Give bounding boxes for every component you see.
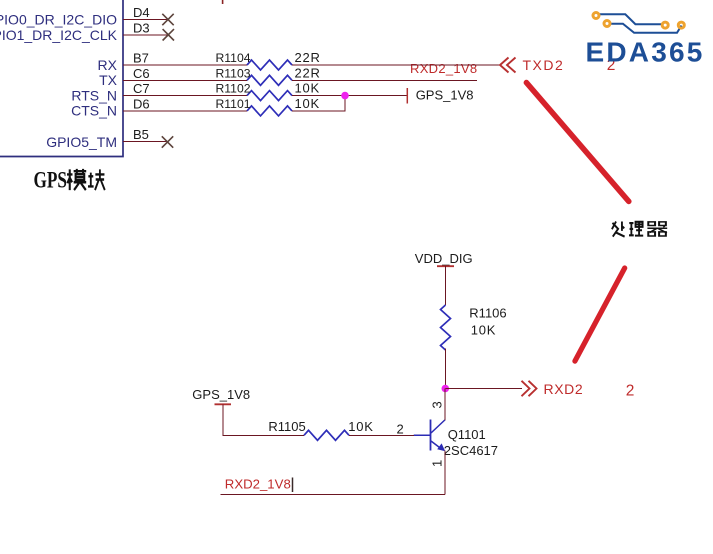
junction dot at R1101/R1102 net xyxy=(341,92,349,100)
svg-text:B5: B5 xyxy=(133,127,149,142)
wire RX row to R1104 xyxy=(123,64,247,66)
svg-text:D4: D4 xyxy=(133,5,150,20)
wire Q1101 emitter down xyxy=(444,451,446,495)
EDA365 logo: trace 1 xyxy=(600,14,662,24)
resistor R1102 xyxy=(247,91,292,101)
svg-text:RXD2_1V8: RXD2_1V8 xyxy=(225,477,291,492)
wire GPS_1V8 down and right to R1105 xyxy=(223,404,304,435)
wire pin D3 stub xyxy=(123,34,168,36)
svg-text:10K: 10K xyxy=(348,419,374,434)
svg-text:GPS_1V8: GPS_1V8 xyxy=(192,387,250,402)
svg-text:3: 3 xyxy=(430,401,445,408)
svg-text:CTS_N: CTS_N xyxy=(71,103,117,119)
EDA365 logo: pad A xyxy=(593,13,599,19)
svg-text:R1103: R1103 xyxy=(216,66,251,80)
wire R1105 to Q1101 base xyxy=(349,434,414,436)
svg-text:R1106: R1106 xyxy=(469,306,506,321)
svg-text:RXD2: RXD2 xyxy=(544,381,584,397)
svg-text:R1102: R1102 xyxy=(216,82,251,96)
svg-text:GPIO5_TM: GPIO5_TM xyxy=(46,134,117,150)
svg-text:22R: 22R xyxy=(295,65,321,80)
svg-text:1: 1 xyxy=(430,460,445,467)
svg-text:GPIO1_DR_I2C_CLK: GPIO1_DR_I2C_CLK xyxy=(0,27,118,43)
resistor R1101 xyxy=(247,106,292,116)
svg-text:22R: 22R xyxy=(295,50,321,65)
svg-text:2: 2 xyxy=(626,383,635,400)
GPS module label: 模 xyxy=(67,169,86,190)
wire TX row dangling xyxy=(292,79,477,81)
svg-text:GPS: GPS xyxy=(34,168,68,193)
svg-text:TX: TX xyxy=(99,72,118,88)
svg-text:R1105: R1105 xyxy=(268,419,305,434)
transistor Q1101 emitter arrow xyxy=(437,443,445,451)
svg-text:RX: RX xyxy=(98,57,118,73)
red annotation line to TXD2 xyxy=(526,83,628,202)
svg-text:10K: 10K xyxy=(471,322,497,337)
EDA365 logo: pad D xyxy=(678,22,684,28)
svg-text:10K: 10K xyxy=(295,96,321,111)
resistor R1103 xyxy=(247,75,292,85)
off-page connector TXD2 (chevrons) xyxy=(500,58,516,73)
annotation label: 处 xyxy=(612,222,625,237)
wire RXD2_1V8 bottom run xyxy=(221,493,446,495)
wire R1106 to collector node xyxy=(445,349,447,390)
no-connect X on D3 xyxy=(163,29,174,40)
wire CTS_N row joining RTS_N net xyxy=(292,96,345,111)
svg-text:RXD2_1V8: RXD2_1V8 xyxy=(410,61,477,76)
svg-text:EDA365: EDA365 xyxy=(586,37,705,68)
GPS module U1101 block border xyxy=(0,0,123,157)
svg-text:C7: C7 xyxy=(133,81,150,96)
svg-text:GPIO0_DR_I2C_DIO: GPIO0_DR_I2C_DIO xyxy=(0,12,117,28)
junction dot collector node xyxy=(442,385,450,393)
wire RTS_N row to R1102 xyxy=(123,95,247,97)
net label cursor tick xyxy=(292,478,294,493)
annotation label: 理 xyxy=(629,222,643,236)
wire collector node down to Q1101 collector xyxy=(444,389,446,421)
EDA365 logo: pad B xyxy=(604,21,610,27)
resistor R1105 xyxy=(304,430,349,440)
off-page connector RXD2 (chevrons) xyxy=(522,381,537,396)
red annotation line to RXD2 xyxy=(575,268,625,361)
wire pin D4 stub xyxy=(123,19,168,21)
svg-text:R1104: R1104 xyxy=(216,51,251,65)
svg-text:2: 2 xyxy=(397,422,404,437)
svg-text:C6: C6 xyxy=(133,66,150,81)
VDD_DIG bar xyxy=(437,265,454,267)
annotation label: 器 xyxy=(647,222,667,236)
svg-text:D6: D6 xyxy=(133,96,150,111)
GPS_1V8 bar (bottom) xyxy=(215,403,232,405)
svg-text:10K: 10K xyxy=(295,81,321,96)
svg-text:RTS_N: RTS_N xyxy=(71,87,117,103)
no-connect X on B5 xyxy=(162,136,173,147)
svg-text:VDD_DIG: VDD_DIG xyxy=(415,251,473,266)
svg-text:GPS_1V8: GPS_1V8 xyxy=(416,87,474,102)
net stub bar GPS_1V8 (top) xyxy=(406,88,408,104)
EDA365 logo: pad C xyxy=(662,22,668,28)
wire VDD to R1106 xyxy=(445,266,447,305)
resistor R1106 (vertical) xyxy=(441,305,451,350)
svg-text:D3: D3 xyxy=(133,20,150,35)
svg-text:B7: B7 xyxy=(133,51,149,66)
no-connect X on D4 xyxy=(162,14,173,25)
svg-text:2SC4617: 2SC4617 xyxy=(444,443,498,458)
svg-text:Q1101: Q1101 xyxy=(448,427,486,442)
wire pin B5 stub xyxy=(123,141,167,143)
svg-text:TXD2: TXD2 xyxy=(523,57,565,73)
EDA365 logo: trace 2 xyxy=(610,24,681,33)
wire RX row to TXD2 port xyxy=(292,64,500,66)
cropped wire stub at top edge xyxy=(222,0,224,4)
transistor Q1101 body xyxy=(414,420,445,451)
resistor R1104 xyxy=(247,60,292,70)
wire CTS_N row to R1101 xyxy=(123,110,247,112)
svg-text:R1101: R1101 xyxy=(216,97,251,111)
GPS module label: 块 xyxy=(88,169,105,190)
wire TX row to R1103 xyxy=(123,79,247,81)
wire collector node to RXD2 port xyxy=(446,388,523,390)
wire RTS_N row to GPS_1V8 stub xyxy=(292,95,407,97)
